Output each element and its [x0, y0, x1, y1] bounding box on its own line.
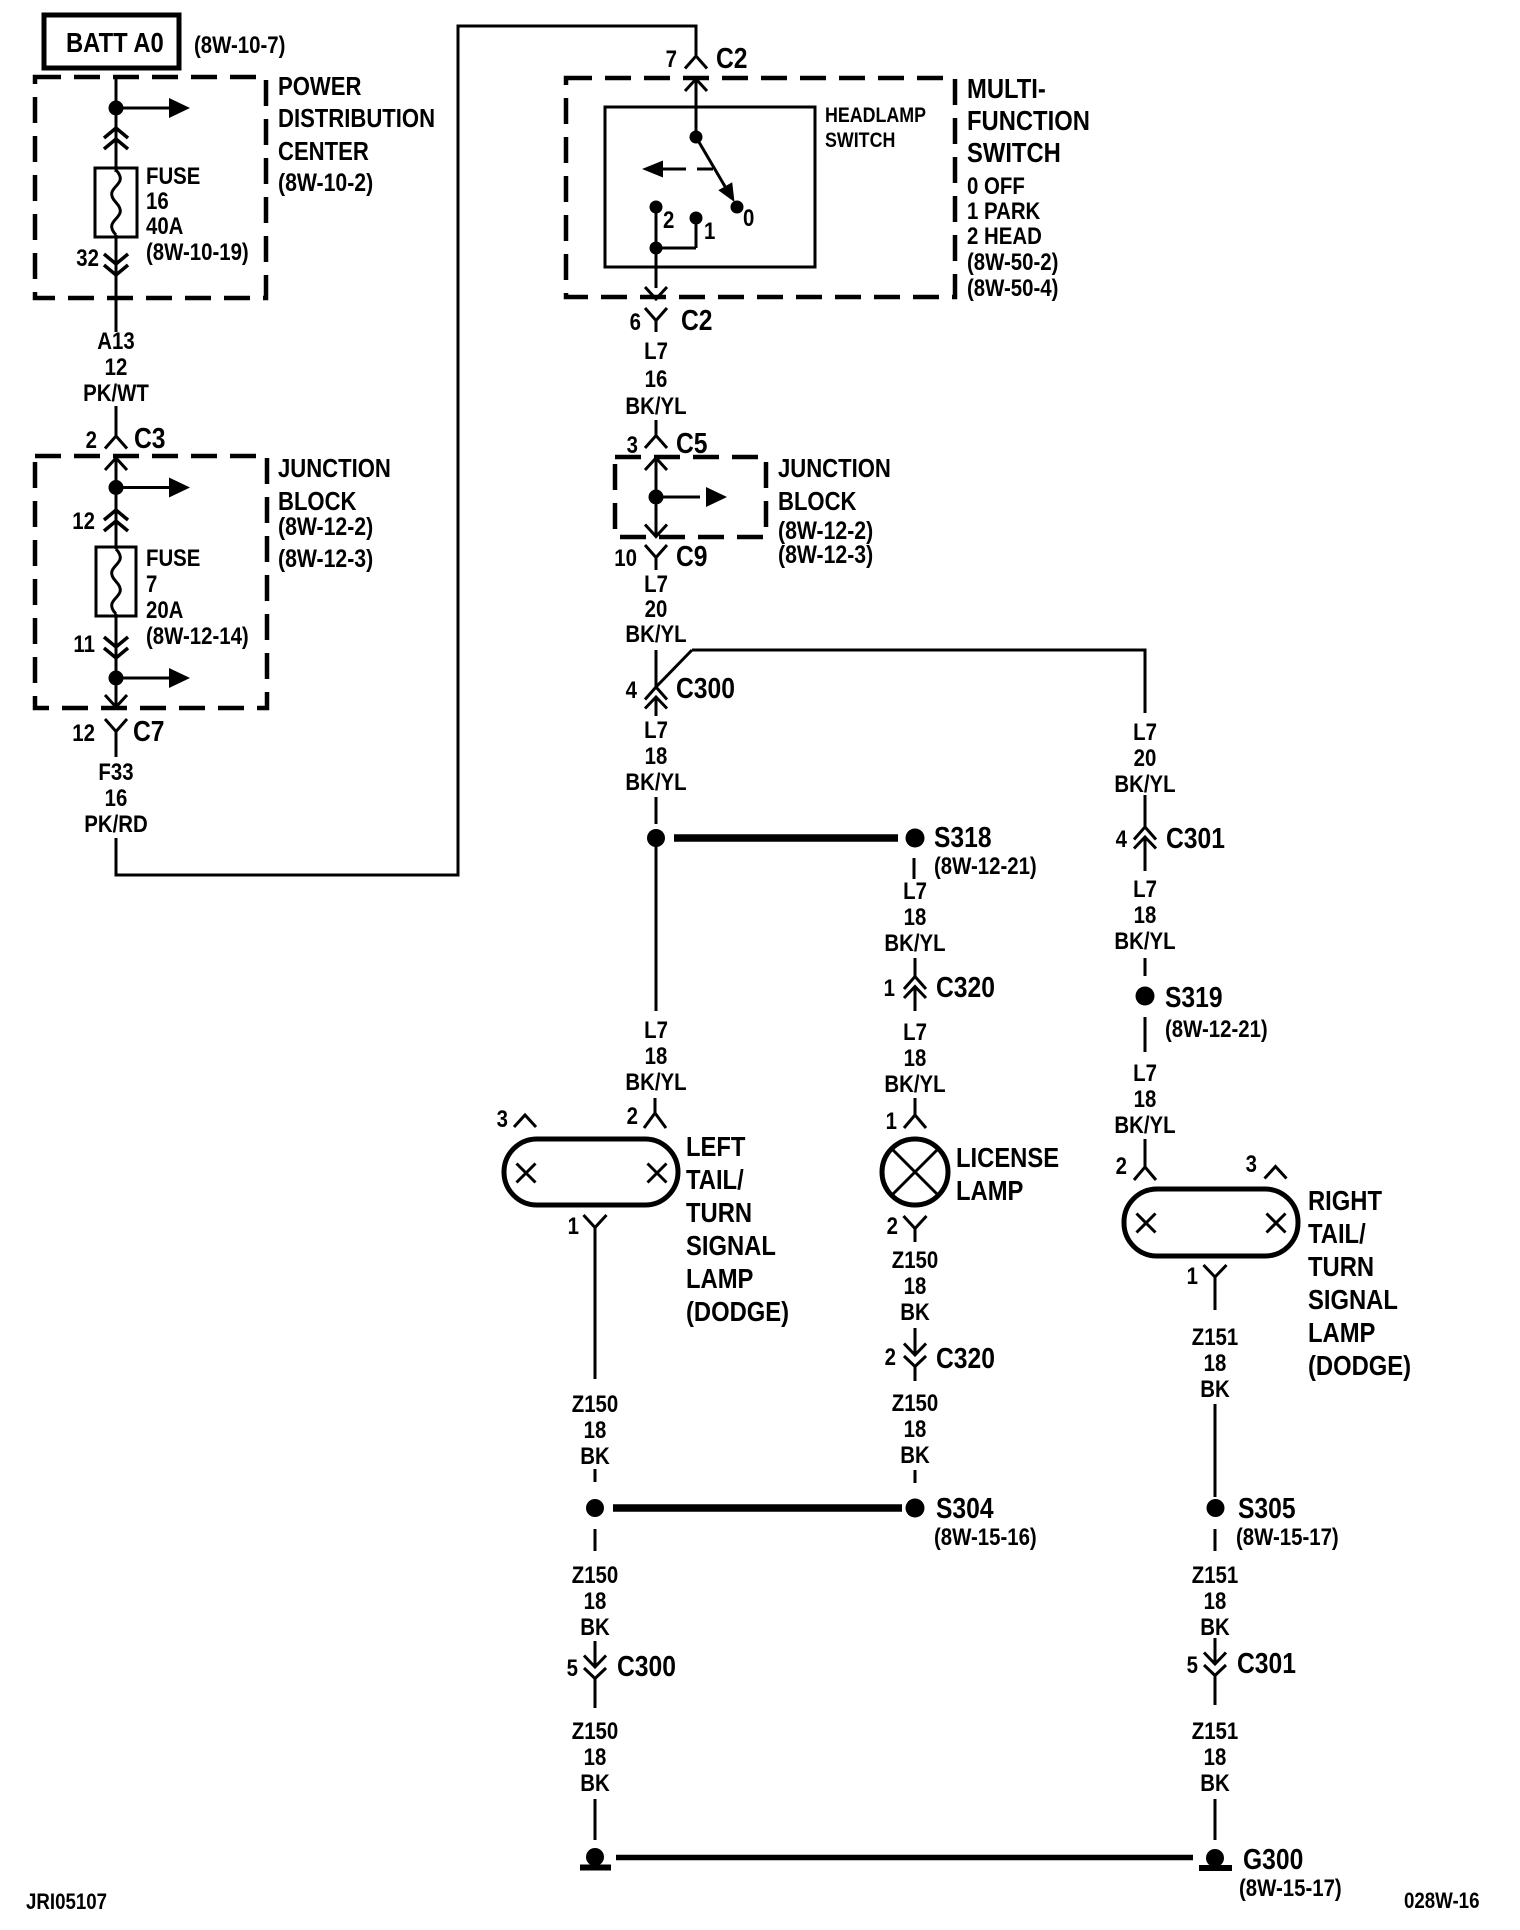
svg-text:Z150: Z150 — [892, 1246, 938, 1273]
svg-text:TAIL/: TAIL/ — [1308, 1217, 1366, 1249]
svg-text:1: 1 — [704, 217, 715, 244]
svg-text:1: 1 — [884, 974, 895, 1001]
svg-text:BATT A0: BATT A0 — [66, 26, 164, 58]
svg-text:HEADLAMP: HEADLAMP — [825, 104, 926, 128]
svg-text:C9: C9 — [676, 540, 708, 572]
svg-text:028W-16: 028W-16 — [1404, 1890, 1479, 1914]
svg-text:20: 20 — [1134, 744, 1157, 771]
svg-text:L7: L7 — [903, 877, 927, 904]
svg-text:L7: L7 — [644, 1016, 668, 1043]
svg-text:L7: L7 — [644, 337, 668, 364]
svg-text:L7: L7 — [644, 570, 668, 597]
svg-text:2: 2 — [86, 426, 97, 453]
svg-text:RIGHT: RIGHT — [1308, 1184, 1382, 1216]
svg-text:2: 2 — [887, 1212, 898, 1239]
svg-text:18: 18 — [584, 1416, 607, 1443]
svg-text:BK/YL: BK/YL — [884, 1070, 945, 1097]
svg-text:18: 18 — [1204, 1587, 1227, 1614]
svg-text:C3: C3 — [134, 422, 166, 454]
svg-text:PK/RD: PK/RD — [84, 810, 147, 837]
svg-text:C301: C301 — [1237, 1647, 1296, 1679]
svg-text:FUNCTION: FUNCTION — [967, 104, 1090, 136]
svg-text:20: 20 — [645, 595, 668, 622]
svg-text:18: 18 — [584, 1587, 607, 1614]
svg-text:(8W-15-17): (8W-15-17) — [1236, 1523, 1339, 1550]
svg-text:Z150: Z150 — [572, 1561, 618, 1588]
svg-text:(DODGE): (DODGE) — [1308, 1349, 1411, 1381]
svg-text:7: 7 — [146, 570, 157, 597]
svg-text:LICENSE: LICENSE — [956, 1141, 1059, 1173]
svg-text:18: 18 — [904, 903, 927, 930]
svg-text:JRI05107: JRI05107 — [26, 1891, 107, 1915]
svg-text:C7: C7 — [133, 715, 165, 747]
svg-text:(8W-12-3): (8W-12-3) — [278, 544, 373, 572]
svg-text:S305: S305 — [1238, 1492, 1296, 1524]
svg-text:(8W-10-2): (8W-10-2) — [278, 168, 373, 196]
svg-text:POWER: POWER — [278, 72, 361, 101]
svg-text:12: 12 — [105, 353, 128, 380]
svg-text:(8W-12-3): (8W-12-3) — [778, 540, 873, 568]
svg-text:3: 3 — [627, 431, 638, 458]
svg-text:BK: BK — [580, 1769, 609, 1796]
svg-text:7: 7 — [666, 45, 677, 72]
svg-text:(DODGE): (DODGE) — [686, 1295, 789, 1327]
svg-text:SWITCH: SWITCH — [825, 129, 895, 153]
svg-text:S304: S304 — [936, 1492, 994, 1524]
svg-text:BK: BK — [580, 1613, 609, 1640]
svg-text:SWITCH: SWITCH — [967, 136, 1061, 168]
svg-text:(8W-12-21): (8W-12-21) — [1165, 1015, 1268, 1042]
svg-text:BK/YL: BK/YL — [1114, 927, 1175, 954]
svg-text:18: 18 — [584, 1743, 607, 1770]
svg-text:SIGNAL: SIGNAL — [1308, 1283, 1398, 1315]
svg-text:16: 16 — [146, 187, 169, 214]
svg-text:(8W-12-21): (8W-12-21) — [934, 852, 1037, 879]
svg-text:1: 1 — [886, 1107, 897, 1134]
svg-text:G300: G300 — [1243, 1843, 1303, 1875]
svg-text:BK/YL: BK/YL — [1114, 770, 1175, 797]
svg-text:C300: C300 — [676, 672, 735, 704]
svg-text:CENTER: CENTER — [278, 137, 369, 166]
svg-text:L7: L7 — [644, 716, 668, 743]
svg-text:C320: C320 — [936, 971, 995, 1003]
svg-text:1 PARK: 1 PARK — [967, 197, 1040, 224]
svg-text:(8W-15-16): (8W-15-16) — [934, 1523, 1037, 1550]
svg-text:Z151: Z151 — [1192, 1717, 1238, 1744]
svg-text:Z150: Z150 — [572, 1390, 618, 1417]
svg-text:2 HEAD: 2 HEAD — [967, 222, 1042, 249]
svg-text:FUSE: FUSE — [146, 544, 200, 571]
svg-text:(8W-12-14): (8W-12-14) — [146, 622, 249, 649]
svg-text:11: 11 — [73, 630, 95, 657]
svg-text:S319: S319 — [1165, 981, 1223, 1013]
svg-text:JUNCTION: JUNCTION — [278, 454, 391, 483]
svg-text:Z151: Z151 — [1192, 1561, 1238, 1588]
svg-text:(8W-10-7): (8W-10-7) — [194, 31, 285, 58]
svg-text:5: 5 — [567, 1654, 578, 1681]
svg-text:2: 2 — [1116, 1152, 1127, 1179]
svg-text:10: 10 — [614, 544, 637, 571]
svg-text:C300: C300 — [617, 1650, 676, 1682]
svg-text:18: 18 — [1134, 1085, 1157, 1112]
svg-text:L7: L7 — [903, 1018, 927, 1045]
svg-text:(8W-50-4): (8W-50-4) — [967, 274, 1058, 301]
svg-text:BLOCK: BLOCK — [778, 487, 857, 516]
svg-text:PK/WT: PK/WT — [83, 379, 149, 406]
svg-text:JUNCTION: JUNCTION — [778, 454, 891, 483]
svg-text:TAIL/: TAIL/ — [686, 1163, 744, 1195]
svg-text:Z151: Z151 — [1192, 1323, 1238, 1350]
svg-text:L7: L7 — [1133, 718, 1157, 745]
svg-text:20A: 20A — [146, 596, 183, 623]
svg-text:18: 18 — [645, 742, 668, 769]
svg-text:3: 3 — [1246, 1150, 1257, 1177]
svg-text:C301: C301 — [1166, 822, 1225, 854]
svg-text:18: 18 — [904, 1044, 927, 1071]
svg-text:(8W-50-2): (8W-50-2) — [967, 248, 1058, 275]
svg-text:3: 3 — [497, 1105, 508, 1132]
svg-text:BK: BK — [580, 1442, 609, 1469]
svg-text:1: 1 — [1187, 1262, 1198, 1289]
svg-text:L7: L7 — [1133, 875, 1157, 902]
svg-text:LAMP: LAMP — [686, 1262, 753, 1294]
svg-text:Z150: Z150 — [572, 1717, 618, 1744]
svg-text:LAMP: LAMP — [1308, 1316, 1375, 1348]
svg-text:C2: C2 — [716, 42, 748, 74]
svg-text:16: 16 — [645, 365, 668, 392]
svg-text:18: 18 — [645, 1042, 668, 1069]
svg-text:4: 4 — [1116, 825, 1128, 852]
svg-text:F33: F33 — [98, 758, 133, 785]
svg-text:(8W-10-19): (8W-10-19) — [146, 238, 249, 265]
svg-text:32: 32 — [76, 244, 99, 271]
svg-text:LAMP: LAMP — [956, 1174, 1023, 1206]
svg-text:BK: BK — [1200, 1769, 1229, 1796]
svg-text:16: 16 — [105, 784, 128, 811]
svg-text:A13: A13 — [97, 327, 134, 354]
svg-text:C320: C320 — [936, 1342, 995, 1374]
svg-text:BK: BK — [900, 1441, 929, 1468]
svg-text:BK/YL: BK/YL — [625, 620, 686, 647]
svg-text:12: 12 — [72, 719, 95, 746]
svg-text:BK/YL: BK/YL — [1114, 1111, 1175, 1138]
svg-text:4: 4 — [626, 676, 638, 703]
svg-text:FUSE: FUSE — [146, 162, 200, 189]
svg-text:(8W-15-17): (8W-15-17) — [1239, 1874, 1342, 1901]
svg-text:BK: BK — [1200, 1613, 1229, 1640]
svg-text:1: 1 — [568, 1212, 579, 1239]
svg-text:BK/YL: BK/YL — [884, 929, 945, 956]
svg-text:C2: C2 — [681, 304, 713, 336]
svg-text:MULTI-: MULTI- — [967, 72, 1046, 104]
svg-text:2: 2 — [663, 206, 674, 233]
svg-text:0: 0 — [743, 204, 754, 231]
svg-text:C5: C5 — [676, 427, 708, 459]
svg-text:6: 6 — [630, 308, 641, 335]
svg-text:12: 12 — [72, 507, 95, 534]
svg-text:(8W-12-2): (8W-12-2) — [278, 512, 373, 540]
svg-text:18: 18 — [1134, 901, 1157, 928]
svg-text:40A: 40A — [146, 212, 183, 239]
svg-text:BK/YL: BK/YL — [625, 768, 686, 795]
svg-text:S318: S318 — [934, 821, 992, 853]
svg-text:18: 18 — [904, 1272, 927, 1299]
svg-text:0 OFF: 0 OFF — [967, 172, 1025, 199]
svg-text:SIGNAL: SIGNAL — [686, 1229, 776, 1261]
svg-text:BK: BK — [1200, 1375, 1229, 1402]
svg-text:TURN: TURN — [686, 1196, 752, 1228]
svg-text:TURN: TURN — [1308, 1250, 1374, 1282]
svg-text:LEFT: LEFT — [686, 1130, 746, 1162]
svg-text:L7: L7 — [1133, 1059, 1157, 1086]
svg-text:5: 5 — [1187, 1651, 1198, 1678]
svg-text:18: 18 — [1204, 1349, 1227, 1376]
svg-text:BK/YL: BK/YL — [625, 1068, 686, 1095]
svg-text:BK/YL: BK/YL — [625, 392, 686, 419]
svg-text:2: 2 — [885, 1343, 896, 1370]
svg-text:18: 18 — [1204, 1743, 1227, 1770]
svg-text:DISTRIBUTION: DISTRIBUTION — [278, 104, 435, 133]
svg-text:Z150: Z150 — [892, 1389, 938, 1416]
svg-text:2: 2 — [627, 1102, 638, 1129]
svg-text:18: 18 — [904, 1415, 927, 1442]
svg-text:BK: BK — [900, 1298, 929, 1325]
